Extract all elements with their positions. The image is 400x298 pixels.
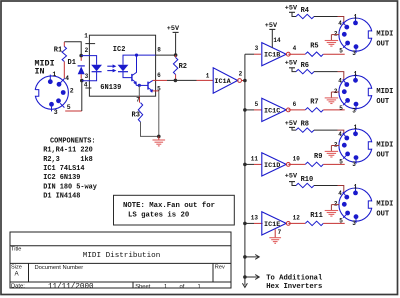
node bus IC1E tap — [243, 222, 247, 226]
svg-text:NOTE: Max.Fan out for: NOTE: Max.Fan out for — [123, 202, 215, 210]
resistor R1 — [62, 42, 66, 78]
svg-text:+5V: +5V — [285, 60, 298, 68]
svg-text:R7: R7 — [310, 98, 318, 106]
resistor R11 — [288, 221, 344, 225]
svg-text:OUT: OUT — [376, 98, 390, 106]
note text — [123, 202, 215, 220]
svg-text:10: 10 — [293, 155, 301, 162]
title block labels — [11, 247, 225, 290]
ground MIDI OUT 1 pin 2 — [325, 35, 339, 47]
svg-text:5: 5 — [339, 158, 343, 165]
IC1B input pin label — [255, 45, 259, 52]
arrow to additional 1 — [245, 255, 259, 260]
inverter IC1B — [262, 43, 290, 66]
svg-text:1: 1 — [206, 73, 210, 80]
power +5V and resistor R10 — [285, 173, 344, 194]
svg-text:3: 3 — [352, 108, 356, 115]
IC1A pin1 label — [206, 73, 210, 80]
svg-text:R11: R11 — [310, 212, 323, 220]
MIDI IN label — [35, 59, 55, 77]
IC2 transistor T2 — [148, 80, 153, 92]
ground MIDI OUT 3 pin 2 — [325, 146, 339, 158]
bus vertical wire — [244, 54, 246, 285]
resistor R3 — [138, 103, 159, 137]
R8 label — [301, 121, 309, 129]
R11 label — [310, 212, 323, 220]
svg-text:2: 2 — [239, 71, 243, 78]
D1 label — [68, 59, 76, 67]
IC2 pin 8 wire — [156, 47, 176, 56]
wire bus to IC1C input — [245, 109, 262, 111]
svg-text:R8: R8 — [301, 121, 309, 129]
svg-text:3: 3 — [54, 109, 58, 116]
svg-text:3: 3 — [352, 220, 356, 227]
node bus IC1D tap — [243, 163, 247, 167]
svg-text:R4: R4 — [301, 7, 309, 15]
IC2 pin 1 stub — [84, 33, 95, 44]
svg-text:MIDI Distribution: MIDI Distribution — [83, 252, 160, 260]
power +5V IC1B pin 14 — [265, 22, 281, 47]
svg-text:2: 2 — [334, 30, 338, 37]
svg-text:D1 IN4148: D1 IN4148 — [43, 193, 80, 201]
MIDI IN pin labels — [52, 71, 73, 116]
svg-text:5: 5 — [255, 101, 259, 108]
svg-text:IC2 6N139: IC2 6N139 — [43, 174, 80, 182]
bus bottom arrow — [242, 283, 247, 287]
svg-text:R6: R6 — [301, 62, 309, 70]
MIDI OUT connector 1 — [339, 16, 374, 53]
svg-text:IC1D: IC1D — [264, 162, 280, 170]
inverter IC1C — [262, 98, 290, 121]
power +5V and resistor R4 — [285, 4, 344, 24]
MIDI OUT connector 2 — [339, 74, 374, 111]
svg-text:R1: R1 — [54, 46, 62, 54]
IC1D input pin label — [251, 155, 259, 162]
svg-text:2: 2 — [70, 87, 74, 94]
to additional hex inverters text — [266, 275, 323, 292]
svg-text:MIDI: MIDI — [376, 201, 393, 209]
svg-text:To Additional: To Additional — [266, 275, 323, 283]
R7 label — [310, 98, 318, 106]
svg-text:IC1A: IC1A — [214, 78, 231, 86]
svg-text:IC2: IC2 — [113, 46, 126, 54]
MIDI OUT 1 pin labels — [334, 13, 358, 57]
svg-text:14: 14 — [273, 37, 281, 44]
svg-text:R10: R10 — [301, 176, 314, 184]
ground MIDI OUT 4 pin 2 — [325, 205, 339, 217]
IC2 pin 7 stub — [136, 96, 140, 103]
IC2 pin 6 wire — [153, 72, 176, 80]
IC2 T1-T2 base wire — [136, 84, 148, 96]
resistor R9 — [288, 162, 344, 166]
svg-text:OUT: OUT — [376, 211, 390, 219]
resistor R5 — [288, 52, 344, 56]
svg-text:2: 2 — [334, 200, 338, 207]
power +5V and resistor R6 — [285, 60, 344, 81]
svg-text:R5: R5 — [310, 43, 318, 51]
IC2 photodiode — [118, 55, 156, 78]
ground symbol below R3 — [153, 136, 166, 146]
node bus IC1C tap — [243, 108, 247, 112]
node bus IC1A junction — [243, 79, 247, 83]
MIDI OUT connector 4 — [339, 186, 374, 223]
R10 label — [301, 176, 314, 184]
svg-text:5: 5 — [339, 47, 343, 54]
wire R1 top elbow to node — [64, 42, 81, 56]
MIDI OUT connector 3 — [339, 127, 374, 164]
svg-text:Sheet: Sheet — [135, 284, 151, 290]
svg-text:11/11/2000: 11/11/2000 — [48, 283, 94, 291]
node pin8 junction — [174, 53, 178, 57]
svg-text:6: 6 — [293, 101, 297, 108]
node bus tap arrow 1 — [243, 255, 247, 259]
svg-text:LS gates is 20: LS gates is 20 — [128, 212, 189, 220]
components list text — [43, 138, 97, 201]
svg-text:MIDI: MIDI — [376, 31, 393, 39]
IC2 label — [113, 46, 126, 54]
wire bus to IC1B input — [245, 53, 261, 55]
IC2 transistor T1 — [132, 55, 137, 85]
wire bus to IC1D input — [245, 163, 262, 165]
wire IC1A output to bus — [242, 80, 245, 82]
node pin3 junction — [80, 79, 84, 83]
svg-text:6: 6 — [157, 72, 161, 79]
svg-text:R1,R4-11 220: R1,R4-11 220 — [43, 147, 93, 155]
svg-text:OUT: OUT — [376, 41, 390, 49]
svg-text:COMPONENTS:: COMPONENTS: — [50, 138, 96, 146]
title block frame — [10, 232, 231, 288]
svg-text:A: A — [15, 271, 20, 278]
svg-text:4: 4 — [338, 190, 342, 197]
svg-text:12: 12 — [293, 214, 301, 221]
svg-text:MIDI: MIDI — [376, 141, 393, 149]
svg-text:1: 1 — [164, 284, 167, 290]
IC2 pin 2 label — [85, 47, 89, 54]
MIDI OUT 2 label — [376, 88, 393, 106]
svg-text:R2: R2 — [179, 63, 187, 71]
6N139 label — [100, 84, 121, 92]
svg-text:6N139: 6N139 — [100, 84, 121, 92]
IC1B output pin label — [293, 45, 297, 52]
MIDI OUT 2 pin labels — [334, 71, 358, 115]
svg-text:11: 11 — [251, 155, 259, 162]
svg-text:2: 2 — [334, 88, 338, 95]
arrow to additional 2 — [245, 275, 259, 280]
svg-text:4: 4 — [338, 131, 342, 138]
resistor R7 — [288, 108, 344, 112]
svg-text:1: 1 — [354, 13, 358, 20]
svg-text:+5V: +5V — [285, 4, 298, 12]
svg-text:7: 7 — [136, 96, 140, 103]
svg-text:4: 4 — [338, 77, 342, 84]
svg-text:IN: IN — [35, 67, 45, 77]
svg-text:5: 5 — [339, 217, 343, 224]
svg-text:5: 5 — [157, 85, 161, 92]
MIDI OUT 4 pin labels — [334, 183, 358, 227]
svg-text:4: 4 — [84, 82, 88, 89]
svg-text:IC1B: IC1B — [264, 52, 280, 60]
MIDI OUT 3 pin labels — [334, 124, 358, 168]
svg-text:4: 4 — [65, 75, 69, 82]
svg-text:MIDI: MIDI — [376, 88, 393, 96]
ground IC1E pin 7 — [269, 229, 281, 243]
svg-text:1: 1 — [84, 33, 88, 40]
IC2 internal rail junction — [135, 54, 138, 57]
note box — [114, 195, 235, 225]
IC2 pin 5 wire — [153, 85, 162, 136]
date text — [48, 283, 94, 291]
svg-text:D1: D1 — [68, 59, 76, 67]
svg-text:+5V: +5V — [285, 120, 298, 128]
svg-text:1: 1 — [52, 71, 56, 78]
IC2 light arrows — [107, 64, 116, 72]
diode D1 (IN4148) across pins 2-3 — [78, 57, 85, 78]
R6 label — [301, 62, 309, 70]
R2 label — [179, 63, 187, 71]
svg-text:3: 3 — [85, 73, 89, 80]
svg-text:3: 3 — [255, 45, 259, 52]
inverter IC1A — [213, 68, 241, 93]
svg-text:1: 1 — [354, 124, 358, 131]
svg-text:Title: Title — [11, 247, 21, 253]
opto-coupler IC2 6N139 box — [89, 35, 155, 96]
node pin2 junction — [79, 54, 83, 58]
svg-text:3: 3 — [352, 161, 356, 168]
node bus tap arrow 2 — [243, 275, 247, 279]
svg-text:1: 1 — [354, 71, 358, 78]
R9 label — [314, 153, 322, 161]
svg-text:4: 4 — [293, 45, 297, 52]
power +5V and resistor R8 — [285, 120, 344, 135]
R4 label — [301, 7, 309, 15]
IC1C output pin label — [293, 101, 297, 108]
svg-text:IC1 74LS14: IC1 74LS14 — [43, 165, 84, 173]
svg-text:R9: R9 — [314, 153, 322, 161]
svg-text:1: 1 — [198, 284, 201, 290]
svg-text:OUT: OUT — [376, 151, 390, 159]
svg-text:+5V: +5V — [265, 22, 278, 30]
IC1E input pin label — [251, 214, 259, 221]
R1 value label — [54, 46, 62, 54]
IC2 internal input LED — [81, 56, 102, 81]
power +5V above IC2 — [167, 25, 180, 55]
svg-text:8: 8 — [157, 47, 161, 54]
inverter IC1E — [262, 212, 290, 235]
svg-text:5: 5 — [67, 104, 71, 111]
svg-text:7: 7 — [278, 229, 282, 236]
IC1C input pin label — [255, 101, 259, 108]
resistor R2 — [173, 55, 177, 80]
svg-text:2: 2 — [85, 47, 89, 54]
svg-text:+5V: +5V — [285, 173, 298, 181]
svg-text:Date:: Date: — [11, 284, 25, 290]
ground MIDI OUT 2 pin 2 — [325, 92, 339, 104]
svg-text:IC1C: IC1C — [264, 107, 280, 115]
svg-text:2: 2 — [334, 141, 338, 148]
IC1A pin2 label — [239, 71, 243, 78]
svg-text:Hex Inverters: Hex Inverters — [266, 283, 322, 291]
svg-text:3: 3 — [352, 50, 356, 57]
MIDI OUT 4 label — [376, 201, 393, 219]
IC1D output pin label — [293, 155, 301, 162]
svg-text:+5V: +5V — [167, 25, 180, 33]
MIDI IN DIN connector — [33, 75, 68, 112]
IC2 pin 4 stub — [84, 82, 92, 89]
IC1E output pin label — [293, 214, 301, 221]
svg-text:Rev: Rev — [215, 265, 225, 271]
title text — [83, 252, 160, 260]
svg-text:5: 5 — [339, 105, 343, 112]
wire pin6 to IC1A input — [175, 79, 213, 81]
MIDI OUT 1 label — [376, 31, 393, 49]
svg-text:DIN 180 5-way: DIN 180 5-way — [43, 183, 97, 191]
svg-text:1: 1 — [354, 183, 358, 190]
node pin6 junction — [174, 79, 178, 83]
sheet text — [135, 284, 201, 290]
R5 label — [310, 43, 318, 51]
inverter IC1D — [262, 153, 290, 176]
svg-text:IC1E: IC1E — [264, 221, 280, 229]
ground node junction — [157, 135, 161, 139]
svg-text:R2,3 1k8: R2,3 1k8 — [43, 156, 93, 164]
wire MIDI IN pin5 to pin3 node — [65, 81, 82, 111]
svg-text:13: 13 — [251, 214, 259, 221]
wire bus to IC1E input — [245, 222, 263, 224]
R3 label — [132, 111, 140, 119]
svg-text:4: 4 — [338, 20, 342, 27]
IC2 pin 3 label — [85, 73, 89, 80]
svg-text:of: of — [180, 284, 185, 290]
svg-text:Document Number: Document Number — [35, 265, 84, 271]
svg-text:R3: R3 — [132, 111, 140, 119]
MIDI OUT 3 label — [376, 141, 393, 159]
